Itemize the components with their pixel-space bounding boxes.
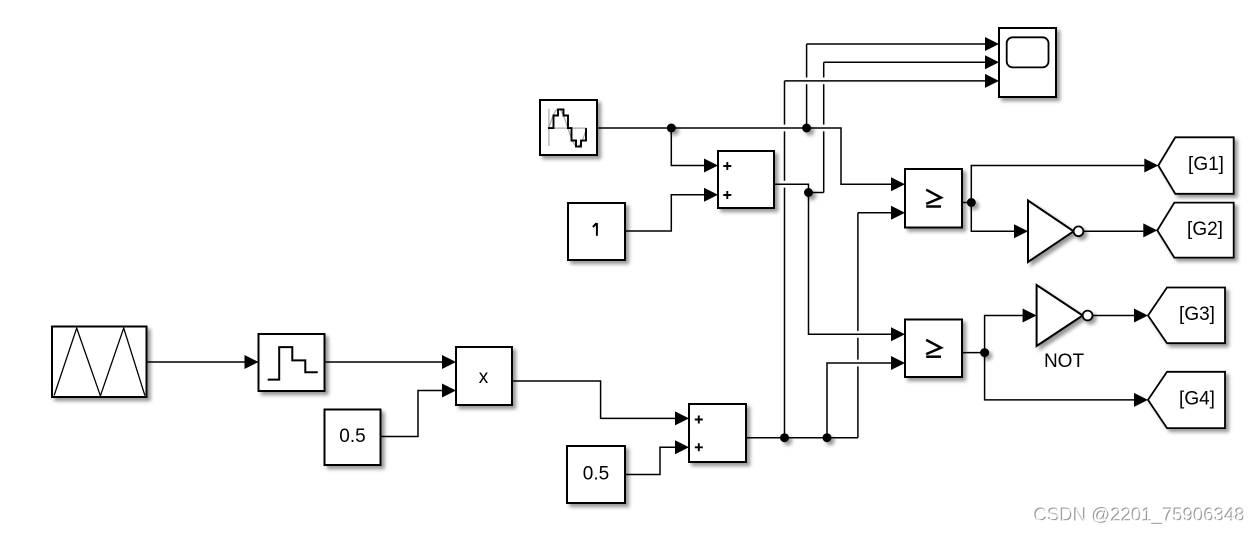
arrow into product input 2 (442, 384, 456, 398)
junction on sum2 output right (823, 433, 832, 442)
block: goto G4 (1148, 372, 1225, 428)
wire: NOT gate 1 output to goto G2 (1083, 230, 1143, 232)
block: repeating sequence (triangle wave source) (52, 327, 147, 398)
arrow into goto G2 (1143, 223, 1157, 237)
wire: constant 0.5b to sum2 input 2 (625, 447, 675, 474)
wire: constant 0.5a to product input 2 (381, 391, 443, 437)
svg-text:NOT: NOT (1044, 351, 1085, 372)
arrow into sum1 input 2 (704, 188, 718, 202)
block: goto G3 (1148, 288, 1225, 344)
block: constant 1 (568, 203, 625, 260)
svg-text:x: x (479, 367, 489, 388)
junction on relational operator 1 output (967, 198, 976, 207)
junction dots (667, 124, 989, 443)
arrow into quantizer input (245, 355, 259, 369)
block: quantizer (259, 334, 325, 391)
block: sum2 (689, 404, 746, 462)
arrow into sum2 input 2 (675, 440, 689, 454)
junction on source line right (802, 124, 811, 133)
wire: branch source to sum1 input 1 (671, 128, 704, 166)
svg-text:[G3]: [G3] (1179, 304, 1215, 325)
wire: product output to sum2 input 1 (512, 381, 675, 418)
block: sum1 (718, 151, 774, 208)
arrow into goto G1 (1144, 159, 1158, 173)
block: goto G1 (1158, 137, 1233, 194)
arrow into relational operator 2 input 2 (891, 356, 905, 370)
arrow into goto G3 (1134, 309, 1148, 323)
wire: branch to NOT gate 1 (971, 203, 1014, 232)
wire: relational operator 2 output to NOT gate 2 (962, 316, 1023, 353)
junction on sum1 output (804, 188, 813, 197)
arrow into scope input 3 (985, 74, 999, 88)
wire: source output to relational operator 1 input 1 (597, 128, 891, 184)
svg-text:[G4]: [G4] (1179, 389, 1215, 410)
wire: repeating sequence output to quantizer (147, 361, 245, 363)
arrow into scope input 2 (985, 55, 999, 69)
wire: branch sum1 output to relational operator 2 input 1 (809, 193, 892, 335)
arrow into scope input 1 (985, 37, 999, 51)
arrowheads (245, 37, 1159, 454)
block: relational operator 2 (>=) (905, 320, 962, 378)
arrow into sum1 input 1 (704, 159, 718, 173)
wire: relational operator 1 output to goto G1 (962, 166, 1144, 203)
block: constant 0.5b (567, 446, 625, 503)
arrow into relational operator 1 input 1 (891, 177, 905, 191)
junction on source line left (667, 124, 676, 133)
block: scope (999, 28, 1056, 97)
svg-text:0.5: 0.5 (339, 426, 365, 447)
block: NOT gate 2 (logical operator) with label (1037, 285, 1093, 346)
block: goto G2 (1157, 203, 1233, 258)
block: source (quantized sine signal) (540, 100, 597, 155)
wire: branch source to scope input 1 (807, 44, 985, 128)
wire: quantizer output to product input 1 (325, 361, 443, 363)
arrow into product input 1 (442, 355, 456, 369)
block: product x (456, 347, 512, 405)
svg-text:0.5: 0.5 (583, 463, 609, 484)
arrow into goto G4 (1134, 393, 1148, 407)
block: NOT gate 1 (logical operator) (1028, 201, 1083, 263)
arrow into NOT gate 2 input (1023, 309, 1037, 323)
svg-text:[G2]: [G2] (1187, 219, 1223, 240)
arrow into relational operator 1 input 2 (891, 206, 905, 220)
wire: branch sum2 output to scope input 3 (785, 81, 986, 438)
svg-text:[G1]: [G1] (1188, 154, 1224, 175)
wire: NOT gate 2 output to goto G3 (1093, 315, 1135, 317)
svg-text:CSDN @2201_75906348: CSDN @2201_75906348 (1035, 505, 1246, 527)
wire: branch sum2 output to relational operator 2 input 2 (827, 363, 891, 438)
watermark CSDN (1033, 504, 1245, 527)
wire: sum2 output to relational operator 1 input 2 (746, 213, 891, 438)
wire: branch relational operator 2 output to goto G4 (985, 353, 1134, 400)
junction on sum2 output left (780, 433, 789, 442)
wire: sum1 output to scope input 2 (774, 184, 824, 192)
arrow into sum2 input 1 (675, 411, 689, 425)
block: relational operator 1 (>=) (905, 169, 962, 228)
arrow into NOT gate 1 input (1014, 224, 1028, 238)
block: constant 0.5a (325, 410, 381, 466)
arrow into relational operator 2 input 1 (891, 327, 905, 341)
junction on relational operator 2 output (980, 348, 989, 357)
wire: constant 1 to sum1 input 2 (625, 195, 704, 231)
